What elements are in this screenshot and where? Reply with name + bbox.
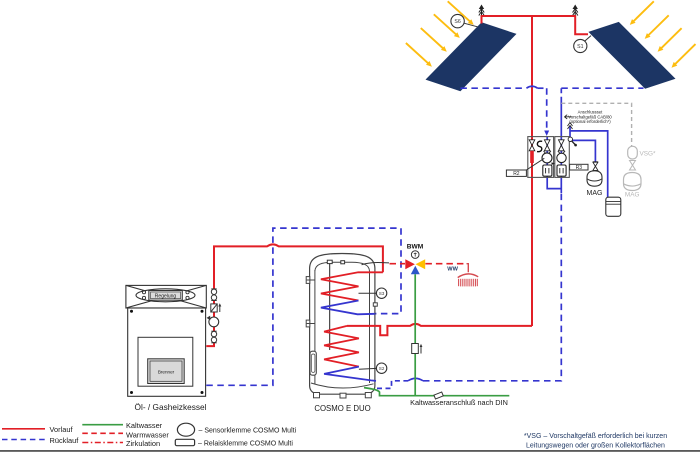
sensor S6	[451, 14, 478, 27]
tank left wall stub lower	[306, 320, 315, 327]
valve on blue line (right box)	[559, 140, 565, 151]
wire: Vorlauf collector header (red)	[482, 16, 589, 34]
svg-text:Brenner: Brenner	[158, 370, 175, 375]
air vent right collector	[573, 5, 578, 17]
tank flange (handhole)	[310, 351, 316, 375]
wire: safety riser (blue, dashed top then solid) x=561.3	[560, 88, 562, 136]
svg-text:S2: S2	[379, 366, 385, 371]
sensor S3	[359, 288, 387, 298]
svg-text:VSG*: VSG*	[640, 151, 656, 158]
check valve on Kaltwasser horizontal	[434, 392, 443, 399]
regulating valve with arrow	[211, 303, 222, 312]
svg-text:Kaltwasser: Kaltwasser	[126, 421, 163, 430]
pump station right box	[555, 137, 570, 178]
wire: solar Vorlauf to tank (red, with siphon dip and bump over green)	[347, 324, 532, 335]
flowmeter thick red segment	[530, 151, 534, 163]
wire: WW outlet from tank (thin dark)	[362, 262, 390, 264]
svg-text:Kaltwasseranschluß nach DIN: Kaltwasseranschluß nach DIN	[410, 398, 508, 407]
boiler corner screws	[130, 310, 204, 394]
legend Vorlauf	[2, 425, 73, 434]
svg-text:BWM: BWM	[407, 243, 424, 250]
optional VSG vessel (grey)	[628, 146, 656, 159]
svg-text:R2: R2	[513, 171, 520, 177]
svg-text:Zirkulation: Zirkulation	[126, 439, 160, 448]
svg-text:COSMO E DUO: COSMO E DUO	[314, 404, 370, 413]
svg-text:S6: S6	[454, 19, 460, 25]
boiler circulation pump	[207, 316, 219, 327]
wire: boiler Vorlauf (red) riser + top run to tank	[206, 244, 383, 346]
Regelung panel	[149, 291, 183, 301]
wire: Vorlauf main drop (red) x=532	[531, 16, 533, 326]
legend Warmwasser	[82, 431, 169, 440]
sun arrows right	[630, 1, 696, 67]
svg-text:MAG: MAG	[587, 190, 603, 197]
note Anschlussset with arrow	[564, 110, 612, 125]
grey dashed line to optional VSG	[561, 103, 631, 146]
svg-text:Vorlauf: Vorlauf	[50, 425, 74, 434]
wire: boiler Rücklauf (blue dashed)	[206, 228, 401, 385]
tank sensor tube	[329, 264, 331, 350]
MAG expansion vessel	[587, 171, 603, 197]
sensor S1	[574, 36, 591, 53]
wire: Kaltwasser riser (green)	[414, 274, 416, 395]
legend Sensorklemme symbol	[177, 423, 296, 436]
svg-text:S3: S3	[379, 291, 385, 296]
svg-text:(optional erforderlich*): (optional erforderlich*)	[569, 119, 611, 124]
air vent on station	[568, 123, 573, 130]
boiler line valve pair upper	[211, 289, 216, 301]
svg-text:S1: S1	[577, 44, 583, 50]
blow-off canister	[606, 197, 621, 216]
tank left wall stub upper	[306, 277, 315, 284]
tank top stubs	[327, 260, 344, 264]
MAG connection valve	[593, 162, 598, 171]
legend Relaisklemme symbol	[175, 439, 293, 447]
optional valve (grey)	[630, 161, 636, 171]
wire: collector return right segment (blue dashed)	[561, 87, 643, 89]
svg-text:– Sensorklemme COSMO Multi: – Sensorklemme COSMO Multi	[199, 427, 297, 434]
svg-text:Öl- / Gasheizkessel: Öl- / Gasheizkessel	[135, 402, 207, 412]
tank COSMO E DUO shell	[310, 254, 375, 395]
BWM mixing valve	[405, 243, 425, 274]
boiler housing	[126, 285, 206, 308]
relay R3	[552, 162, 589, 171]
tank right wall stub	[373, 303, 377, 306]
S-bend symbol in left box	[537, 141, 542, 151]
svg-text:MAG: MAG	[625, 192, 640, 199]
sensor S2	[359, 363, 387, 373]
valve on red line (left box)	[529, 140, 535, 151]
svg-text:R3: R3	[576, 165, 583, 171]
Brenner box	[148, 359, 185, 384]
pump motor box left	[543, 165, 552, 176]
air vent left collector	[479, 5, 484, 17]
legend Kaltwasser	[82, 421, 162, 430]
collector left (Kollektor 1)	[426, 22, 517, 91]
legend Zirkulation	[82, 439, 160, 448]
safety valve with lever	[568, 137, 577, 146]
wire: Kaltwasser bottom run (green)	[364, 388, 509, 396]
svg-text:WW: WW	[447, 267, 458, 273]
optional MAG (grey)	[624, 173, 642, 199]
wire: collector return left segment (blue dashed) with bump over red	[460, 86, 546, 88]
bottom border line	[0, 450, 700, 452]
pump station left box	[528, 137, 554, 178]
svg-text:*VSG – Vorschaltgefäß erforder: *VSG – Vorschaltgefäß erforderlich bei k…	[524, 433, 667, 440]
relay R2	[506, 158, 544, 177]
svg-text:– Relaisklemme COSMO Multi: – Relaisklemme COSMO Multi	[198, 440, 293, 447]
note VSG (navy)	[524, 433, 667, 449]
wire: return drop to station (blue dashed)	[544, 88, 549, 136]
upper coil red (boiler heat exchanger)	[321, 272, 383, 300]
valve on blue line (left box)	[544, 140, 550, 151]
flow valve on green riser	[412, 344, 423, 354]
shower symbol	[458, 264, 479, 287]
wire: Warmwasser dashed (red)	[390, 263, 467, 265]
wire: tank to station return (blue dashed) with bump over green	[377, 192, 561, 388]
boiler line valve pair lower	[211, 331, 216, 343]
svg-text:Rücklauf: Rücklauf	[50, 436, 80, 445]
boiler body	[128, 308, 206, 396]
lower coil red (solar heat exchanger)	[324, 326, 359, 367]
svg-text:Regelung: Regelung	[155, 294, 177, 300]
legend Rücklauf	[2, 436, 79, 445]
upper coil blue end	[321, 301, 375, 315]
wire: station internal blue lines	[547, 127, 608, 198]
svg-text:Leitungswegen oder großen Koll: Leitungswegen oder großen Kollektorfläch…	[526, 443, 665, 450]
tank feet	[314, 393, 372, 399]
lower coil blue end	[324, 367, 376, 381]
pump motor box right	[557, 165, 566, 176]
sun arrows left	[406, 1, 474, 66]
collector right (Kollektor 2)	[588, 22, 675, 89]
pump right	[557, 151, 566, 163]
pump left	[542, 151, 552, 163]
